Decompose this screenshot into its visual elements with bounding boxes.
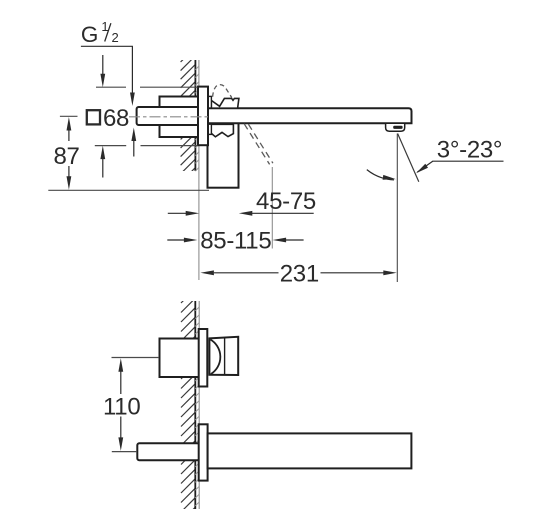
escutcheon plate (side view)	[198, 87, 208, 146]
aerator at spout tip	[386, 123, 405, 131]
dim 85-115 line right	[273, 238, 287, 243]
reference plane line under body	[48, 189, 209, 191]
dim 110 line upper	[120, 371, 122, 394]
svg-text:68: 68	[103, 105, 129, 132]
svg-text:3°-23°: 3°-23°	[437, 137, 502, 164]
supply stem through body	[137, 107, 199, 125]
spout escutcheon (plan)	[199, 424, 208, 480]
handle escutcheon (plan)	[199, 329, 208, 387]
extension line handle axis	[112, 357, 160, 359]
dim 87 top arrow	[68, 130, 70, 141]
handle knob (plan)	[209, 337, 238, 375]
wall finished-surface line (plan view)	[198, 301, 200, 509]
rough-in body behind wall	[160, 97, 200, 138]
handle lowered position (dashed double line)	[244, 124, 269, 165]
svg-text:110: 110	[103, 393, 140, 420]
spout (plan view)	[208, 433, 412, 468]
G1/2 leader underline	[81, 45, 133, 47]
wall surface ticks (plan view)	[195, 307, 199, 311]
extension line from handle tip	[271, 167, 273, 249]
dim 85-115 line left	[167, 239, 184, 241]
3-23 leader arrow	[416, 164, 428, 173]
wall face line (side view)	[194, 60, 196, 171]
centerline (dashed)	[129, 116, 211, 118]
knob dome arc	[210, 340, 220, 375]
handle upper box with break-line top	[211, 98, 239, 108]
extension line top of escutcheon	[96, 86, 126, 88]
handle raised position (dashed)	[213, 85, 232, 98]
angle arc arrow	[383, 175, 396, 180]
svg-text:45-75: 45-75	[256, 188, 316, 215]
svg-text:231: 231	[280, 261, 319, 288]
dim 68 top arrow	[102, 55, 104, 75]
dim 68 bottom arrow	[102, 159, 104, 178]
wall surface ticks (side view)	[195, 66, 199, 70]
svg-text:85-115: 85-115	[200, 228, 271, 255]
angle arc	[367, 170, 394, 180]
stem lower arrow	[133, 141, 135, 157]
svg-text:87: 87	[53, 143, 79, 170]
wall finished-surface line (side view) + extension down	[198, 60, 200, 280]
dim 110 line lower	[120, 417, 122, 439]
aerator slot	[393, 126, 402, 129]
dim 45-75 line left	[168, 212, 186, 214]
dim 231 line	[214, 272, 279, 274]
svg-text:2: 2	[112, 30, 119, 45]
3-23 leader line	[432, 160, 503, 162]
lower mounting tab	[208, 124, 211, 134]
spout supply pipe (plan)	[137, 443, 199, 460]
extension line bottom of escutcheon	[95, 145, 126, 147]
knob divider line	[224, 338, 226, 375]
extension line spout axis	[112, 451, 137, 453]
upper mounting tab	[208, 96, 211, 108]
dim 87 bottom arrow	[68, 166, 70, 177]
wall (side view) hatching	[181, 47, 196, 182]
dim 45-75 line right	[239, 211, 253, 216]
wall (plan view) hatching	[181, 289, 195, 522]
angled spray line 23deg	[398, 134, 419, 182]
svg-text:G: G	[81, 22, 98, 47]
wall face line (plan view)	[194, 301, 196, 509]
square symbol	[87, 110, 100, 124]
mixer body below spout	[208, 123, 239, 188]
spout (side view)	[208, 108, 412, 123]
handle rough-in body (plan)	[160, 339, 200, 378]
vertical reference line from spout tip	[396, 134, 398, 283]
extension line at centerline	[60, 115, 78, 117]
handle lower box with break-line bottom	[211, 124, 233, 137]
G1/2 leader vertical + arrow to stem	[131, 46, 133, 94]
